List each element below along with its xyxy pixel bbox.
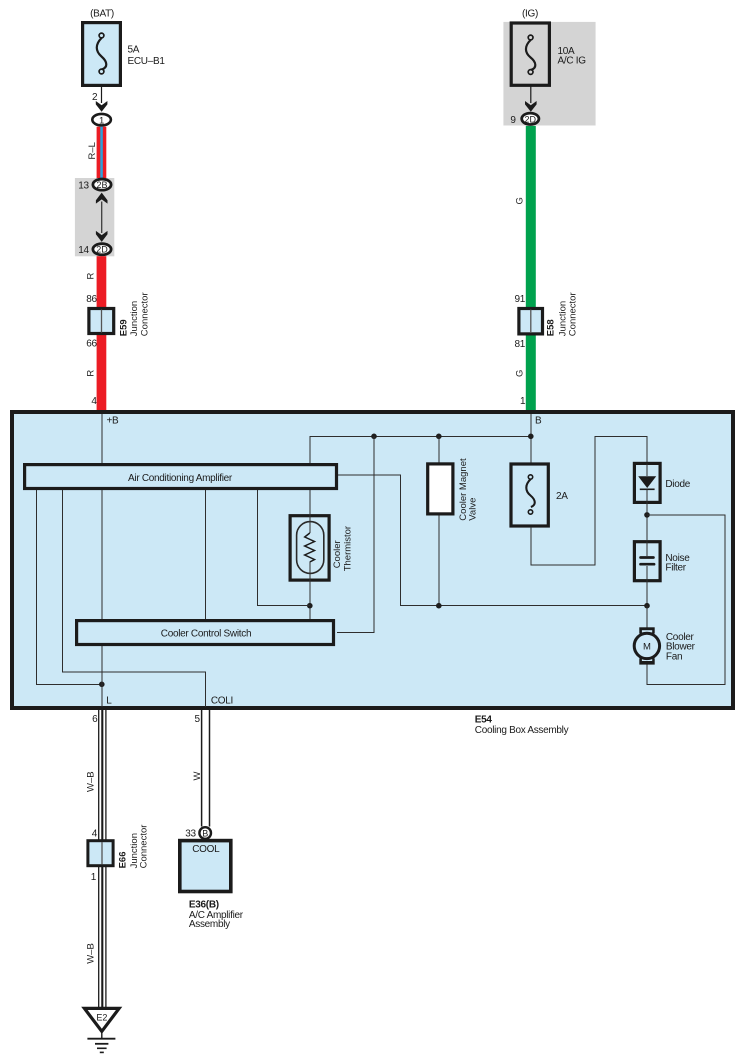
cooler control switch box <box>77 621 334 645</box>
ground symbol <box>101 1031 103 1038</box>
svg-text:4: 4 <box>91 396 97 407</box>
svg-text:L: L <box>106 696 112 707</box>
connector 2D <box>522 113 539 124</box>
svg-text:33: 33 <box>185 828 196 839</box>
svg-text:Connector: Connector <box>139 825 150 869</box>
wire ACA to thermistor <box>309 490 311 514</box>
svg-text:E59: E59 <box>118 319 129 336</box>
fuse 5A symbol <box>97 33 107 74</box>
junction connector E66 <box>88 841 113 866</box>
connector 2D <box>93 244 111 255</box>
svg-text:R: R <box>86 370 97 377</box>
svg-text:W: W <box>192 772 203 781</box>
wire B down <box>530 414 532 462</box>
svg-text:B: B <box>535 415 542 426</box>
fuse 2A box <box>511 464 548 526</box>
air conditioning amplifier box <box>25 465 337 489</box>
wire cooler magnet valve down <box>438 516 440 606</box>
svg-text:ECU–B1: ECU–B1 <box>128 56 166 67</box>
svg-text:G: G <box>515 197 526 204</box>
box E54 <box>12 412 733 708</box>
cooler magnet valve box <box>428 464 453 514</box>
node dots on B rail <box>371 434 377 440</box>
svg-text:91: 91 <box>514 294 525 305</box>
svg-text:+B: +B <box>107 415 120 426</box>
wire R-L blue stripe <box>100 127 103 178</box>
fuse 10A symbol <box>526 35 535 74</box>
svg-text:(IG): (IG) <box>522 8 538 19</box>
junction connector E59 <box>89 309 114 334</box>
svg-text:Diode: Diode <box>665 479 690 490</box>
wire diode to noise filter <box>646 503 648 540</box>
cooling box assembly E54 <box>12 412 733 708</box>
svg-text:Assembly: Assembly <box>189 919 230 930</box>
diode symbol <box>646 463 648 476</box>
svg-text:Cooler Control Switch: Cooler Control Switch <box>161 628 251 639</box>
wire motor top <box>646 606 648 628</box>
svg-text:Connector: Connector <box>139 292 150 336</box>
wire R red <box>97 256 107 410</box>
junction connector E58 <box>519 309 543 334</box>
svg-text:1: 1 <box>99 115 104 126</box>
wire CCS to L <box>101 646 103 708</box>
svg-text:E58: E58 <box>546 319 557 336</box>
bottom ground branch <box>84 708 149 1052</box>
svg-text:B: B <box>202 828 208 838</box>
thermistor zigzag <box>309 514 311 533</box>
wire W double <box>201 708 203 827</box>
wire W-B triple <box>98 708 100 1008</box>
svg-text:2D: 2D <box>525 114 537 124</box>
svg-text:W–B: W–B <box>86 943 97 964</box>
wire between arrows <box>101 202 103 234</box>
svg-text:13: 13 <box>78 180 89 191</box>
svg-text:6: 6 <box>92 714 98 725</box>
wire +B down <box>101 414 103 464</box>
node dots lower rail <box>436 603 442 609</box>
svg-text:R–L: R–L <box>87 142 98 159</box>
fuse 2A symbol <box>526 475 534 514</box>
svg-text:R: R <box>86 273 97 280</box>
wire fuse to connector 2D <box>530 85 532 103</box>
wire ACA pin1 down <box>37 490 102 684</box>
wire branch to thermistor <box>258 490 310 606</box>
diode box <box>634 463 660 502</box>
svg-text:2B: 2B <box>96 180 107 190</box>
cooler blower fan motor <box>634 627 659 664</box>
gray block IG <box>503 22 595 126</box>
wire to cooler magnet valve <box>438 436 440 462</box>
bottom COLI branch <box>180 708 244 930</box>
svg-text:2: 2 <box>92 92 98 103</box>
svg-text:14: 14 <box>78 245 89 256</box>
svg-text:M: M <box>643 641 651 652</box>
left battery branch <box>75 8 165 410</box>
svg-text:5: 5 <box>195 714 201 725</box>
COOL box E36(B) <box>180 841 231 892</box>
wire ACA to CCS 2 <box>204 490 206 620</box>
wire ACA to CCS <box>101 490 103 620</box>
arrow down <box>96 231 108 242</box>
wire to cooler control switch right <box>337 436 374 632</box>
wire 2A to diode <box>531 436 647 565</box>
svg-text:Filter: Filter <box>665 563 686 574</box>
svg-text:1: 1 <box>91 872 97 883</box>
svg-text:2A: 2A <box>556 491 568 502</box>
svg-text:A/C IG: A/C IG <box>558 55 587 66</box>
wire fuse to connector 1 <box>101 85 103 103</box>
svg-text:E66: E66 <box>118 851 129 868</box>
svg-text:81: 81 <box>514 339 525 350</box>
svg-text:W–B: W–B <box>86 771 97 792</box>
ground E2 triangle <box>84 1008 119 1031</box>
arrow down <box>96 101 108 112</box>
cooler thermistor box <box>290 516 329 580</box>
svg-text:Cooling Box Assembly: Cooling Box Assembly <box>475 725 569 736</box>
wire main horizontal <box>310 436 531 463</box>
svg-text:5A: 5A <box>128 45 140 56</box>
svg-text:Valve: Valve <box>468 498 479 521</box>
svg-text:4: 4 <box>92 828 98 839</box>
svg-text:G: G <box>515 370 526 377</box>
wire R-L red <box>97 127 107 178</box>
svg-text:Thermistor: Thermistor <box>342 526 353 571</box>
svg-text:E2: E2 <box>96 1013 107 1023</box>
connector 1 <box>92 114 111 126</box>
wire loop to motor bottom <box>647 515 725 684</box>
gray connector block 2B/2D <box>75 178 114 256</box>
arrow down <box>525 101 537 112</box>
svg-text:Air Conditioning Amplifier: Air Conditioning Amplifier <box>128 473 233 484</box>
svg-text:(BAT): (BAT) <box>90 8 114 19</box>
connector B circle <box>199 827 211 839</box>
wire lower horizontal <box>337 475 648 606</box>
node dot diode out <box>644 512 650 518</box>
svg-text:1: 1 <box>520 396 526 407</box>
svg-text:COLI: COLI <box>211 696 233 707</box>
wire G green <box>526 126 536 411</box>
fuse 5A ECU-B1 box <box>83 23 121 86</box>
arrow up <box>96 193 108 204</box>
svg-text:66: 66 <box>86 339 97 350</box>
node dot L <box>99 682 105 688</box>
noise filter symbol <box>646 542 648 556</box>
svg-text:86: 86 <box>86 294 97 305</box>
node dot thermistor out <box>307 603 313 609</box>
wire ACA pin2 to COLI <box>62 490 205 707</box>
connector 2B <box>93 179 111 190</box>
noise filter box <box>634 542 660 581</box>
right ignition branch <box>503 8 595 410</box>
fuse 10A A/C IG box <box>511 23 549 85</box>
svg-text:COOL: COOL <box>192 844 220 855</box>
svg-text:Connector: Connector <box>567 292 578 336</box>
svg-text:2D: 2D <box>96 245 108 255</box>
svg-text:Fan: Fan <box>666 651 682 662</box>
svg-text:9: 9 <box>510 115 516 126</box>
